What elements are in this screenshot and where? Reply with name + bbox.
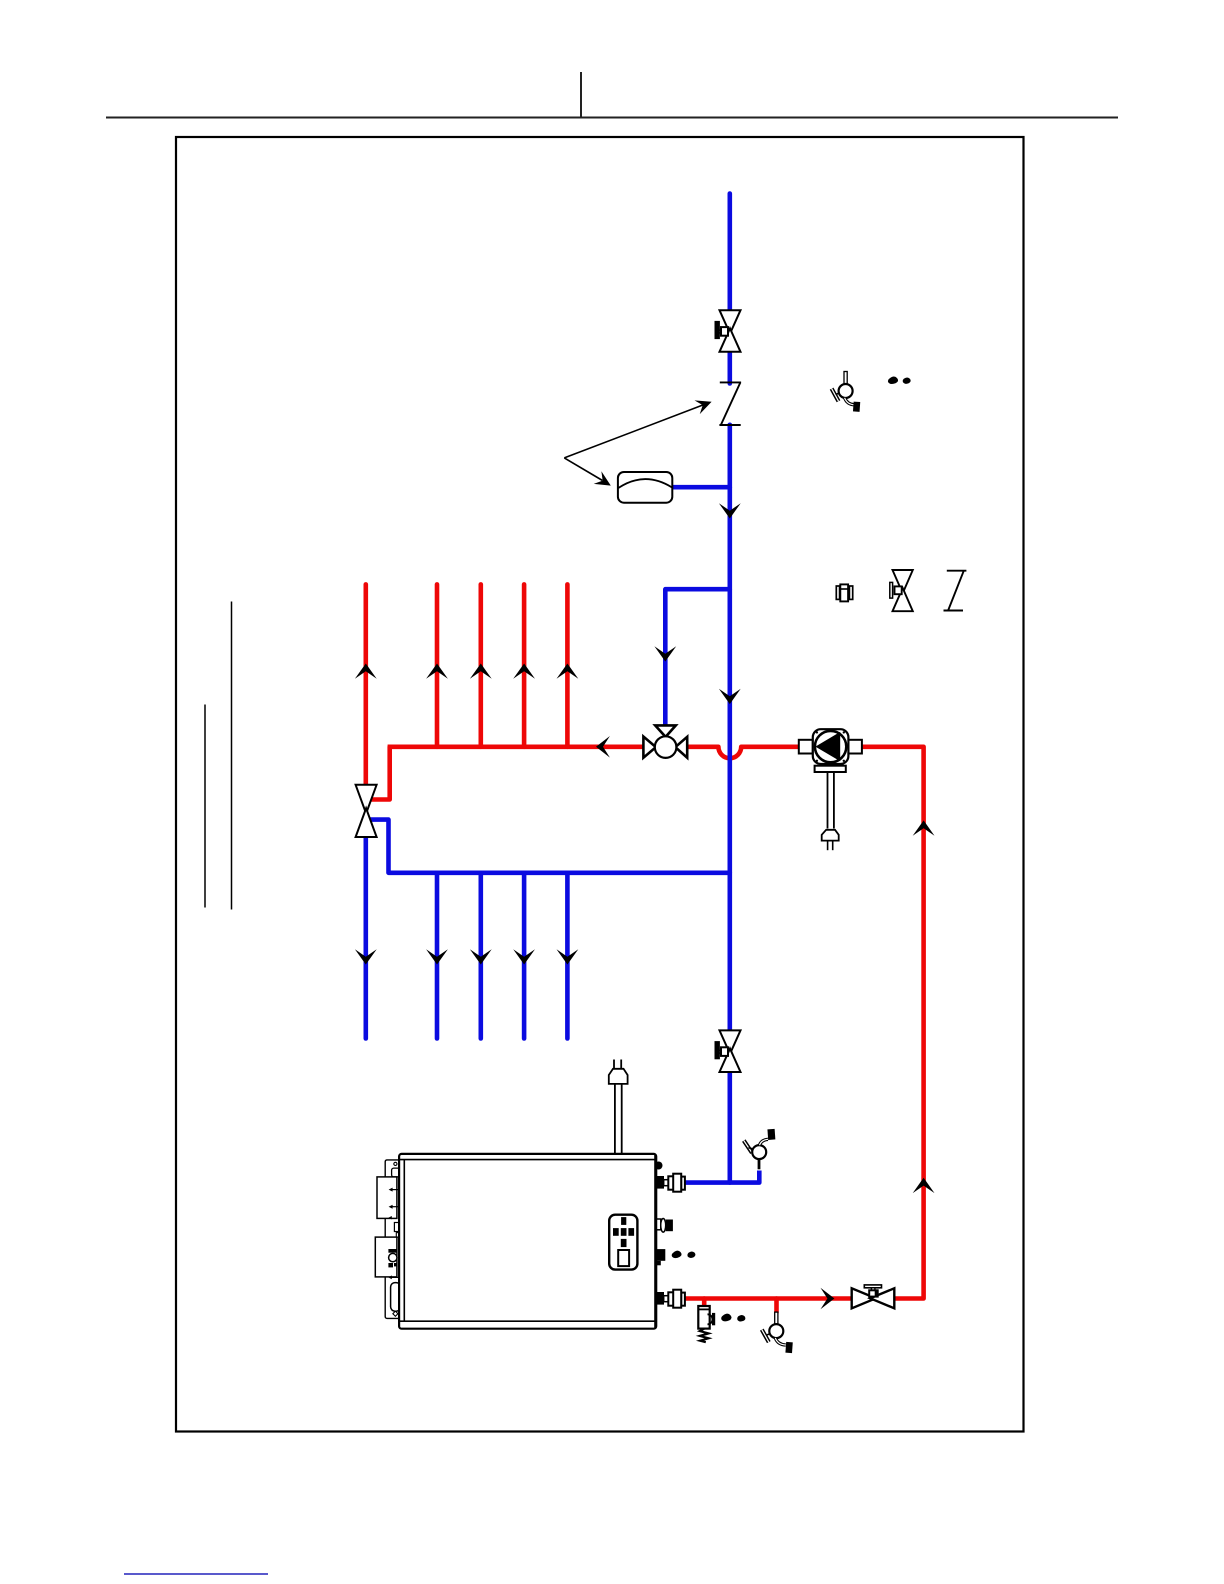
leader line (table rule) 2 <box>204 705 206 908</box>
header rule <box>106 117 1118 119</box>
flow arrow: blue riser 5 down <box>557 949 579 964</box>
flow arrow: bottom red right <box>821 1288 835 1310</box>
mixing valve U1 (3-way) <box>643 725 687 757</box>
boiler gas tapping (black stub) <box>656 1249 665 1265</box>
label blob pair (relief size) <box>721 1314 745 1322</box>
flow arrow: blue riser 3 down <box>470 949 492 964</box>
flow arrow: red riser 2 up <box>426 664 448 679</box>
circulator pump P1 <box>799 729 862 850</box>
flow arrow: blue main down (below gauge) <box>719 503 741 518</box>
flow arrow: blue main down (below branch) <box>719 689 741 704</box>
boiler control panel <box>609 1215 637 1270</box>
pipe: blue riser 5 <box>565 873 570 1039</box>
flow arrow: red riser 5 up <box>557 664 579 679</box>
boiler relief tapping (capped) <box>657 1219 673 1233</box>
header tick <box>580 72 582 117</box>
leader line (table rule) 1 <box>231 602 233 910</box>
label blob pair (drain size, top right) <box>888 376 911 384</box>
ball valve V3 (boiler supply, with tee handle) <box>852 1285 895 1308</box>
pipe: blue branch to mixing valve <box>665 589 730 727</box>
boiler (wall-hung unit shown on side) <box>375 1154 656 1329</box>
pressure gauge (fill regulator body) <box>618 472 672 503</box>
bypass valve (between supply and return headers) <box>356 785 377 837</box>
shutoff valve V1 (top of feed main) <box>715 310 740 352</box>
pipe: red riser 2 <box>435 584 440 746</box>
flow arrow: right red riser up (lower) <box>913 1178 935 1193</box>
pipe: blue main between shutoff valve and fill connection <box>727 353 732 384</box>
pipe: relief valve stub <box>702 1299 707 1309</box>
label blob pair (gas size) <box>672 1251 696 1259</box>
pipe: red riser 4 <box>522 584 527 746</box>
union Z (legend symbol) <box>944 571 967 611</box>
drain valve (legend symbol, top right) <box>832 372 861 412</box>
pipe: blue riser 4 <box>522 873 527 1039</box>
pipe: pressure gauge stub <box>673 485 730 490</box>
pipe: blue cold-water feed main (top to shutoff valve) <box>727 194 732 312</box>
relief valve on supply <box>698 1306 716 1342</box>
boiler return tapping nipple <box>656 1176 668 1189</box>
flow arrow: blue riser 4 down <box>513 949 535 964</box>
shutoff valve V2 (lower, on blue main) <box>715 1030 740 1072</box>
union on boiler supply <box>668 1290 685 1308</box>
pipe: red riser 5 <box>565 584 570 746</box>
flow arrow: blue riser 1 down <box>355 949 377 964</box>
union Z1 (fill connection on feed main) <box>719 382 741 425</box>
pipe: blue main below lower shutoff valve to boiler return line <box>727 1072 732 1183</box>
pipe: red riser 3 <box>478 584 483 746</box>
flow arrow: red riser 3 up <box>470 664 492 679</box>
shutoff valve (legend symbol) <box>890 570 913 611</box>
flow arrow: red header left <box>596 736 610 758</box>
flow arrow: blue riser 2 down <box>426 949 448 964</box>
pipe: red riser 1 (to bypass valve) <box>363 584 368 786</box>
pipe: blue riser 1 (from bypass valve) <box>363 836 368 1039</box>
pipe: blue main from fill connection down to lower shutoff valve <box>727 425 732 1031</box>
pipe: boiler return line with drain riser <box>683 1171 759 1183</box>
flow arrow: red riser 1 up <box>355 664 377 679</box>
boiler power cord and plug (vent at top) <box>609 1060 628 1154</box>
union on boiler return <box>668 1174 685 1192</box>
pipe: red header left drop to bypass valve <box>369 747 390 800</box>
leader lines with arrowheads (pointing at fill valve parts) <box>564 405 703 481</box>
flow arrow: red riser 4 up <box>513 664 535 679</box>
boiler supply tapping nipple <box>656 1292 668 1305</box>
drain valve on boiler supply (points down) <box>762 1312 793 1353</box>
boiler sensor boss (top right corner) <box>655 1162 663 1170</box>
union (legend symbol) <box>836 584 852 601</box>
pipe: blue riser 2 <box>435 873 440 1039</box>
drain valve on boiler return (points up) <box>744 1129 776 1169</box>
pipe: red supply header with hop over blue main, right riser to boiler supply <box>388 747 924 1299</box>
pipe: blue riser 3 <box>478 873 483 1039</box>
footer link underline <box>124 1573 268 1575</box>
flow arrow: blue branch down <box>654 646 676 661</box>
flow arrow: right red riser up (upper) <box>913 820 935 835</box>
pipe: drain valve stub on supply <box>774 1299 779 1313</box>
figure border frame <box>176 137 1024 1432</box>
pipe: blue return header <box>369 820 730 873</box>
